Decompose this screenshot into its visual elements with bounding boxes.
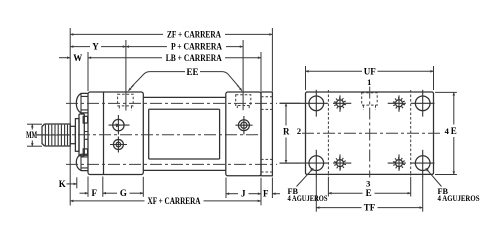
hole row centerline top	[280, 102, 435, 104]
rod collar	[75, 119, 79, 152]
gland bolt top	[83, 116, 87, 123]
svg-text:Y: Y	[92, 42, 99, 52]
svg-text:4 AGUJEROS: 4 AGUJEROS	[288, 194, 328, 203]
extension lines bottom cap	[225, 178, 227, 199]
svg-text:F: F	[263, 189, 269, 199]
dimension R	[285, 103, 287, 125]
tie rod centerline top	[66, 102, 277, 104]
TF extension lines	[315, 176, 317, 212]
dimension E bottom	[328, 192, 362, 194]
dimension XF + CARRERA	[70, 200, 144, 202]
FB mounting hole bottom-right	[415, 156, 430, 171]
svg-text:3: 3	[366, 178, 370, 188]
dimension J	[226, 193, 238, 195]
thread lines	[45, 125, 67, 146]
cap block	[226, 92, 261, 176]
front tie-rod nut top	[76, 93, 88, 113]
svg-text:EE: EE	[186, 67, 198, 77]
R extension bottom	[280, 162, 301, 164]
main centerline	[36, 134, 258, 136]
rear nut hidden lines bottom	[261, 159, 272, 172]
rear nut hidden lines top	[261, 97, 272, 110]
head block	[88, 92, 143, 175]
tie rod hole top-right	[396, 100, 403, 107]
svg-text:E: E	[451, 126, 457, 136]
svg-text:F: F	[91, 188, 97, 198]
bore square hidden line left	[327, 90, 329, 176]
rod stub into head	[84, 132, 88, 140]
svg-text:4: 4	[445, 126, 450, 136]
vertical centerline	[369, 87, 371, 178]
extension line head port center	[125, 40, 127, 111]
svg-text:MM: MM	[26, 130, 37, 140]
gland bolt bottom	[83, 149, 87, 155]
piston rod thread MM	[42, 124, 70, 146]
svg-text:E: E	[366, 188, 372, 198]
dimension P + CARRERA	[126, 46, 167, 48]
gland retainer plate	[79, 114, 84, 156]
svg-text:LB + CARRERA: LB + CARRERA	[166, 53, 222, 63]
dimension ZF + CARRERA	[70, 33, 163, 35]
extension line cap rear face	[260, 52, 262, 91]
FB leader right	[426, 168, 442, 186]
extension line head flange front face	[87, 52, 89, 91]
extension line rear nut face	[271, 28, 273, 91]
dimension UF	[305, 66, 307, 90]
tie rod hole bottom-right	[396, 160, 403, 167]
svg-text:1: 1	[367, 77, 371, 87]
cylinder tube	[149, 109, 220, 159]
svg-text:UF: UF	[364, 66, 376, 76]
FB mounting hole top-right	[415, 96, 430, 111]
dimension E right	[435, 91, 457, 93]
rod neck	[70, 126, 75, 143]
cap cushion valve circle	[238, 120, 249, 131]
FB mounting hole bottom-left	[309, 156, 324, 171]
front tie-rod nut bottom	[76, 154, 88, 170]
head flange back face line	[103, 92, 105, 175]
dimension G	[103, 192, 117, 194]
hole row centerline bottom	[280, 162, 435, 164]
svg-text:W: W	[73, 53, 82, 63]
dimension MM	[27, 123, 42, 125]
tie rod top edge	[143, 96, 226, 98]
dimension F front	[80, 192, 89, 194]
extension line cap port center	[242, 40, 244, 110]
cap rear plate	[261, 92, 272, 176]
dimension TF	[316, 207, 361, 209]
dimension Y	[70, 46, 90, 48]
extension line rod face	[69, 28, 71, 206]
head port (hidden)	[118, 94, 134, 106]
port 1 square (hidden)	[362, 93, 378, 105]
svg-text:J: J	[241, 189, 246, 199]
svg-text:ZF + CARRERA: ZF + CARRERA	[167, 29, 221, 39]
svg-text:R: R	[283, 127, 290, 137]
tie rod bottom edge	[143, 169, 226, 171]
svg-text:4 AGUJEROS: 4 AGUJEROS	[438, 194, 480, 203]
FB leader left	[297, 168, 314, 186]
bore square hidden line right	[410, 90, 412, 176]
dimension EE leader	[131, 72, 185, 88]
dimension LB + CARRERA	[88, 57, 162, 59]
svg-text:G: G	[120, 188, 127, 198]
svg-text:P + CARRERA: P + CARRERA	[171, 42, 222, 52]
E bottom extension lines	[327, 177, 329, 197]
svg-text:K: K	[59, 179, 66, 189]
dimension K	[67, 183, 77, 185]
svg-text:XF + CARRERA: XF + CARRERA	[148, 196, 201, 206]
flange plate	[306, 92, 434, 174]
horizontal centerline	[302, 132, 442, 134]
cap port (hidden)	[236, 95, 251, 106]
tie rod hole bottom-left	[337, 160, 344, 167]
svg-text:TF: TF	[364, 203, 376, 213]
dimension W (outside arrow)	[59, 57, 70, 59]
R extension top	[280, 102, 301, 104]
svg-text:2: 2	[297, 126, 301, 136]
head check ball circle	[113, 140, 123, 150]
tie rod centerline bottom	[66, 163, 277, 165]
head cushion valve circle	[113, 119, 124, 130]
tie rod hole top-left	[337, 100, 344, 107]
extension lines bottom head	[87, 177, 89, 197]
FB mounting hole top-left	[309, 96, 324, 111]
